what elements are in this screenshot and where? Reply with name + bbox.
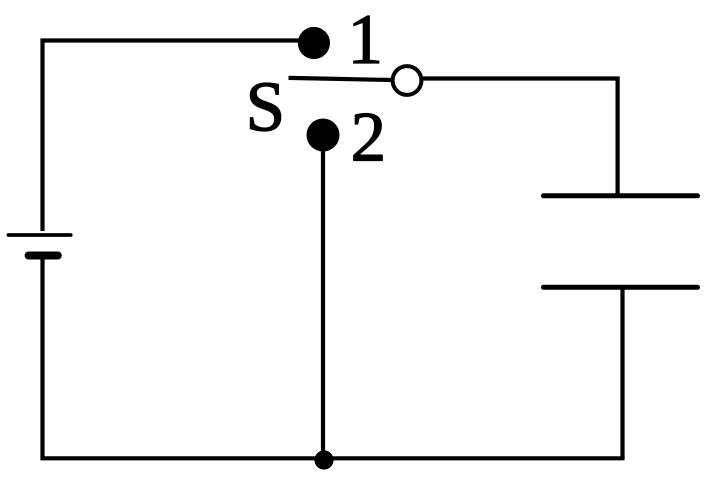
- switch terminal 1 (node dot): [298, 27, 330, 59]
- battery negative plate (short thick): [29, 252, 58, 260]
- capacitor top plate: [544, 193, 698, 198]
- wire: switch pole across and down to capacitor top plate: [421, 79, 618, 196]
- wire: bottom bus from left corner to right corner: [40, 456, 624, 460]
- switch S blade (pole arm): [289, 78, 393, 80]
- svg-text:S: S: [246, 68, 286, 146]
- svg-text:2: 2: [351, 98, 387, 176]
- wire: battery positive terminal up and across to switch terminal 1: [43, 41, 306, 232]
- switch pole pivot (open circle): [393, 66, 422, 95]
- wire: capacitor bottom plate down to bottom-right corner: [620, 287, 624, 458]
- capacitor bottom plate: [544, 285, 698, 290]
- wire: battery negative terminal down to bottom-left corner: [40, 257, 44, 458]
- wire: switch terminal 2 down to junction on bottom bus: [321, 135, 325, 459]
- switch terminal 2 (node dot): [307, 119, 340, 152]
- battery positive plate (long thin): [9, 233, 71, 237]
- junction node (dot on bottom bus): [314, 450, 333, 469]
- svg-text:1: 1: [348, 1, 384, 79]
